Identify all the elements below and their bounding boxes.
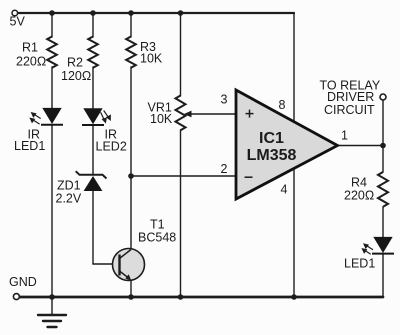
svg-text:T1: T1 <box>150 218 165 232</box>
svg-text:R2: R2 <box>67 56 83 70</box>
svg-text:LED1: LED1 <box>344 256 375 270</box>
svg-text:10K: 10K <box>140 52 163 66</box>
svg-text:4: 4 <box>281 183 288 197</box>
svg-text:2: 2 <box>221 162 228 176</box>
svg-text:IC1: IC1 <box>259 130 284 147</box>
svg-text:GND: GND <box>9 275 37 289</box>
svg-text:3: 3 <box>221 93 228 107</box>
svg-text:LED2: LED2 <box>96 139 127 153</box>
svg-text:R4: R4 <box>351 175 367 189</box>
svg-text:1: 1 <box>341 129 348 143</box>
svg-text:220Ω: 220Ω <box>344 189 374 203</box>
svg-text:CIRCUIT: CIRCUIT <box>324 103 375 117</box>
svg-text:8: 8 <box>279 98 286 112</box>
svg-text:5V: 5V <box>10 15 26 29</box>
svg-text:2.2V: 2.2V <box>56 192 82 206</box>
svg-text:LED1: LED1 <box>14 139 45 153</box>
svg-text:ZD1: ZD1 <box>57 179 81 193</box>
svg-text:220Ω: 220Ω <box>16 55 46 69</box>
svg-text:10K: 10K <box>150 112 173 126</box>
svg-text:LM358: LM358 <box>247 147 297 164</box>
svg-text:BC548: BC548 <box>138 231 176 245</box>
svg-text:120Ω: 120Ω <box>61 69 91 83</box>
svg-text:DRIVER: DRIVER <box>327 90 374 104</box>
svg-text:R1: R1 <box>22 41 38 55</box>
